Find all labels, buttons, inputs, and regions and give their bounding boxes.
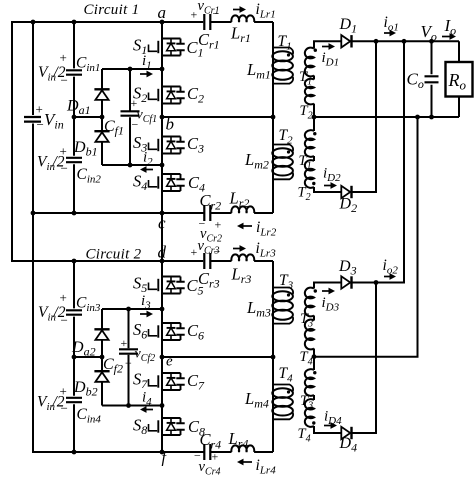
svg-text:vCr1: vCr1 <box>198 0 220 17</box>
junction dots top rail c2 <box>72 259 77 264</box>
svg-text:iLr3: iLr3 <box>256 240 277 260</box>
svg-text:S3: S3 <box>133 133 147 155</box>
transformer T1 secondary winding lower <box>299 117 317 172</box>
svg-text:Db2: Db2 <box>73 379 98 399</box>
svg-text:C2: C2 <box>187 84 204 106</box>
svg-text:Vo: Vo <box>421 22 437 44</box>
label Io <box>442 16 456 40</box>
svg-text:i4: i4 <box>142 390 152 409</box>
diode Db1 <box>73 131 110 158</box>
diode D4 <box>339 427 358 455</box>
junction io2 riser on output bus <box>402 39 407 44</box>
wire T2 bottom to D2 <box>314 187 341 192</box>
svg-text:Cf2: Cf2 <box>103 356 123 376</box>
wire circuit1 bottom rail <box>33 212 204 214</box>
diode Da2 <box>71 329 110 358</box>
switch S5 <box>133 274 185 296</box>
voltage source Vin <box>24 102 64 133</box>
svg-text:Cr4: Cr4 <box>200 430 222 452</box>
wire secondary center line c2 <box>312 117 418 359</box>
capacitor C2 label <box>187 84 204 106</box>
svg-text:S2: S2 <box>133 84 147 106</box>
svg-text:C6: C6 <box>187 321 204 343</box>
svg-text:c: c <box>158 214 166 233</box>
wire Cin chain circuit2 <box>73 261 75 452</box>
capacitor C8 label <box>188 417 205 439</box>
transformer T4 secondary winding <box>300 316 315 368</box>
wire left outer rail <box>12 22 203 262</box>
wire node e to transformer midpoint <box>162 356 273 358</box>
svg-text:Da2: Da2 <box>71 339 96 359</box>
switch S2 <box>133 84 185 106</box>
wire T4 bottom to D4 <box>314 426 341 433</box>
svg-text:S6: S6 <box>133 320 147 342</box>
wire Lr3 to transformer <box>254 260 273 262</box>
junction node b to transformer <box>271 115 276 120</box>
transformer T3 secondary winding <box>300 288 317 330</box>
transformer T4 secondary winding lower <box>298 395 316 445</box>
wire Cr3 to Lr3 <box>210 260 231 262</box>
wire Cin midpoint to clamp diodes <box>74 116 102 118</box>
current arrow iD3 <box>322 288 340 314</box>
capacitor Cf2 <box>103 307 155 408</box>
wire secondary top lead c2 <box>314 283 341 289</box>
node b <box>160 115 174 134</box>
svg-text:+: + <box>60 290 67 305</box>
wire Vin lower segment note <box>32 213 34 357</box>
svg-text:S1: S1 <box>133 36 147 58</box>
junction node e to transformer <box>271 355 276 360</box>
current arrow iD4 <box>324 409 342 429</box>
wire clamp diode chain circuit1 <box>101 69 103 165</box>
svg-text:S8: S8 <box>133 416 147 438</box>
wire D4 riser <box>352 283 376 434</box>
svg-text:−: − <box>37 117 44 132</box>
junction dots bottom rail c1 <box>31 211 77 216</box>
svg-text:T4: T4 <box>279 365 294 385</box>
current arrow io1 <box>384 14 399 36</box>
svg-text:i3: i3 <box>141 293 151 312</box>
svg-text:iD3: iD3 <box>322 295 340 314</box>
wire D1 to output bus <box>352 40 459 42</box>
title Circuit 1 <box>84 2 140 18</box>
svg-text:Lm4: Lm4 <box>244 389 269 411</box>
svg-text:iLr1: iLr1 <box>256 1 276 21</box>
wire secondary center tap bus c1 <box>312 115 459 120</box>
svg-text:Circuit 1: Circuit 1 <box>84 2 140 18</box>
capacitor C4 label <box>188 173 205 195</box>
svg-text:Lr4: Lr4 <box>228 429 249 451</box>
svg-text:T2: T2 <box>300 103 313 122</box>
diode D1 <box>339 16 358 48</box>
node c <box>158 211 166 233</box>
inductor Lr1 <box>230 15 254 45</box>
current arrow i1 <box>140 53 153 77</box>
wire Lr4 to transformer <box>254 419 273 452</box>
wire primary leg circuit1 <box>272 22 274 213</box>
diode Da1 <box>66 89 110 117</box>
wire circuit2 top rail <box>12 260 203 262</box>
transformer T3 primary Lm3 <box>246 272 294 324</box>
inductor Lr3 <box>231 254 255 286</box>
svg-text:Cf1: Cf1 <box>104 118 124 138</box>
label Vo <box>421 22 437 44</box>
node f <box>160 450 169 467</box>
svg-text:+: + <box>191 8 198 22</box>
svg-text:Db1: Db1 <box>73 139 98 159</box>
svg-text:Co: Co <box>407 70 424 92</box>
switch S3 <box>133 133 185 155</box>
junction return bus riser <box>415 115 420 120</box>
diode D2 <box>339 186 358 215</box>
capacitor Cf1 <box>104 67 157 168</box>
resistor Ro <box>446 41 473 117</box>
current arrow i2 <box>140 150 153 173</box>
svg-text:C7: C7 <box>187 371 205 393</box>
svg-text:Lr3: Lr3 <box>231 265 252 287</box>
wire i1 junction rail <box>102 68 162 70</box>
svg-text:iD1: iD1 <box>322 50 340 69</box>
svg-text:S7: S7 <box>133 370 148 392</box>
switch S4 <box>133 172 185 194</box>
capacitor C5 label <box>187 276 204 298</box>
wire secondary top lead c1 <box>314 41 341 48</box>
junction i1 on leg <box>160 67 165 72</box>
diode Db2 <box>73 371 110 398</box>
svg-text:S5: S5 <box>133 274 147 296</box>
transformer T2 secondary winding <box>300 76 315 122</box>
svg-text:T1: T1 <box>278 33 292 53</box>
svg-text:+: + <box>36 102 43 117</box>
svg-text:/2: /2 <box>53 304 66 321</box>
svg-text:S4: S4 <box>133 172 147 194</box>
junction Cin midpoint circuit1 <box>72 115 77 120</box>
wire i3 junction rail <box>102 308 162 310</box>
inductor Lr2 <box>229 189 255 214</box>
switch S7 <box>133 370 185 392</box>
current arrow iLr2 <box>237 219 277 239</box>
svg-text:+: + <box>191 245 198 259</box>
junction D3/D4 cathode bus <box>374 280 379 285</box>
svg-text:D2: D2 <box>339 196 358 216</box>
node e <box>160 354 173 370</box>
title Circuit 2 <box>86 247 142 263</box>
node d <box>158 243 167 264</box>
wire Cin chain circuit1 <box>73 22 75 213</box>
capacitor Cin1 <box>38 50 100 88</box>
capacitor C3 label <box>187 134 204 156</box>
node a <box>158 3 167 24</box>
svg-text:Vin: Vin <box>44 110 64 132</box>
svg-text:Lm3: Lm3 <box>246 298 271 320</box>
switch S6 <box>133 320 185 342</box>
junction node on top rail at Vin line <box>31 20 77 25</box>
svg-text:T3: T3 <box>279 272 294 292</box>
svg-text:C3: C3 <box>187 134 204 156</box>
svg-text:+: + <box>215 218 222 232</box>
current arrow iLr4 <box>237 457 276 477</box>
svg-text:T4: T4 <box>298 426 311 445</box>
junction Cin midpoint circuit2 <box>72 355 77 360</box>
junction clamp chain midpoint c1 <box>100 115 105 120</box>
svg-text:Cin4: Cin4 <box>77 406 102 426</box>
junction i2 on leg <box>160 163 165 168</box>
svg-text:Cr1: Cr1 <box>198 30 220 52</box>
capacitor Cin3 <box>38 290 101 328</box>
transformer T3 secondary winding lower <box>300 357 316 412</box>
junction clamp chain midpoint c2 <box>100 355 105 360</box>
capacitor Cr3 <box>191 238 221 291</box>
transformer T2 secondary winding lower <box>298 156 316 203</box>
svg-text:D3: D3 <box>338 258 357 278</box>
svg-text:Cr3: Cr3 <box>198 269 220 291</box>
junction dots bottom rail c2 <box>72 450 77 455</box>
current arrow iD2 <box>323 166 341 189</box>
current arrow i4 <box>140 390 153 413</box>
capacitor C7 label <box>187 371 205 393</box>
capacitor C1 label <box>187 38 204 60</box>
capacitor Cr2 <box>199 191 223 245</box>
inductor Lr4 <box>228 429 255 452</box>
svg-text:vCf2: vCf2 <box>135 347 156 365</box>
svg-text:iD2: iD2 <box>323 166 341 185</box>
wire i4 junction rail <box>102 405 162 407</box>
svg-text:vCf1: vCf1 <box>137 108 158 126</box>
svg-text:Cin3: Cin3 <box>76 295 101 315</box>
current arrow iLr1 <box>233 1 276 21</box>
wire i2 junction rail <box>102 164 162 166</box>
wire circuit2 bottom rail <box>33 357 204 452</box>
switch S1 <box>133 36 185 58</box>
capacitor C6 label <box>187 321 204 343</box>
capacitor Cr1 <box>191 0 220 52</box>
wire primary leg circuit2 <box>272 261 274 452</box>
transformer T4 primary Lm4 <box>244 365 293 419</box>
transformer T1 secondary winding <box>299 48 317 88</box>
svg-text:Cin2: Cin2 <box>77 166 102 186</box>
svg-text:Lr1: Lr1 <box>230 24 251 46</box>
wire D2 riser <box>352 41 376 192</box>
wire Cr4 to Lr4 <box>210 451 231 453</box>
svg-text:a: a <box>158 3 167 22</box>
wire D3 to io2 riser <box>352 41 404 282</box>
wire Cr2 to Lr2 <box>210 212 231 214</box>
svg-text:/2: /2 <box>53 64 66 81</box>
junction D1/D2 cathode bus <box>374 39 379 44</box>
svg-text:+: + <box>121 336 128 350</box>
wire clamp diode chain circuit2 <box>101 309 103 406</box>
junction i3 on leg <box>160 307 165 312</box>
svg-text:Lr2: Lr2 <box>229 189 250 211</box>
svg-text:iLr4: iLr4 <box>256 457 277 477</box>
svg-text:Cin1: Cin1 <box>76 55 100 75</box>
svg-text:Cr2: Cr2 <box>200 191 222 213</box>
svg-text:Da1: Da1 <box>66 98 91 118</box>
svg-text:T2: T2 <box>279 127 294 147</box>
svg-text:D1: D1 <box>339 16 358 36</box>
capacitor Cin2 <box>37 144 101 186</box>
wire Vin line <box>32 22 34 452</box>
svg-text:/2: /2 <box>52 154 65 171</box>
capacitor Cr4 <box>194 430 221 478</box>
transformer T1 primary Lm1 <box>246 33 293 84</box>
switch S8 <box>133 416 185 438</box>
transformer T2 primary Lm2 <box>244 127 293 179</box>
svg-text:D4: D4 <box>339 435 358 455</box>
wire Cr1 to Lr1 <box>210 21 231 23</box>
diode D3 <box>338 258 357 289</box>
capacitor Cin4 <box>37 384 101 426</box>
svg-text:Lm1: Lm1 <box>246 60 271 82</box>
svg-text:Lm2: Lm2 <box>244 150 269 172</box>
wire bridge leg circuit1 <box>161 22 163 452</box>
svg-text:/2: /2 <box>52 394 65 411</box>
svg-text:+: + <box>60 50 67 65</box>
wire node b to transformer midpoint <box>162 116 273 118</box>
current arrow i3 <box>140 293 153 317</box>
wire Lr2 to transformer <box>254 179 273 213</box>
junction i4 on leg <box>160 403 165 408</box>
wire Cin midpoint to clamp diodes c2 <box>74 356 102 358</box>
svg-text:Ro: Ro <box>448 70 467 93</box>
svg-text:−: − <box>125 356 132 370</box>
svg-text:T4: T4 <box>300 349 313 368</box>
wire Lr1 to transformer <box>254 21 273 23</box>
svg-text:e: e <box>166 354 173 370</box>
capacitor Co <box>407 39 439 120</box>
current arrow iD1 <box>322 43 340 68</box>
svg-text:iLr2: iLr2 <box>256 219 277 239</box>
current arrow io2 <box>383 257 399 280</box>
current arrow iLr3 <box>233 240 276 260</box>
